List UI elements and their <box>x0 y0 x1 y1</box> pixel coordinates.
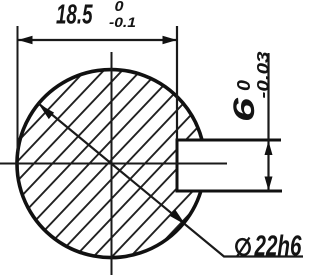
extension line right (18.5) <box>176 26 178 140</box>
tongue top edge <box>177 139 281 142</box>
svg-text:6: 6 <box>228 98 261 122</box>
arrowhead left <box>18 36 33 44</box>
arrowhead down (6) <box>265 177 273 191</box>
dimension line 18.5 <box>18 39 177 41</box>
shaft outline circle D22 with notch gap <box>17 70 202 258</box>
notch face vertical edge <box>176 139 179 193</box>
diameter dimension line across circle with leader <box>39 104 304 257</box>
svg-text:-0.03: -0.03 <box>254 51 273 99</box>
arrowhead lower-right on circle <box>170 209 186 224</box>
dimension text 18.5 0/-0.1 <box>56 0 136 30</box>
svg-text:22h6: 22h6 <box>254 231 302 263</box>
svg-text:-0.1: -0.1 <box>109 14 136 30</box>
tongue bottom edge <box>177 190 282 193</box>
svg-text:18.5: 18.5 <box>56 0 93 30</box>
extension line left (18.5) <box>17 26 19 152</box>
vertical centerline <box>111 52 113 275</box>
svg-text:0: 0 <box>234 80 254 91</box>
arrowhead right <box>163 36 178 44</box>
dimension line 6 (vertical) <box>267 53 269 191</box>
arrowhead upper-left on circle <box>39 104 55 119</box>
dimension text 6 0/-0.03 rotated <box>228 51 273 122</box>
arrowhead up (6) <box>265 141 273 155</box>
svg-text:0: 0 <box>115 0 125 15</box>
horizontal centerline <box>0 163 227 165</box>
label D22h6 <box>235 238 252 257</box>
